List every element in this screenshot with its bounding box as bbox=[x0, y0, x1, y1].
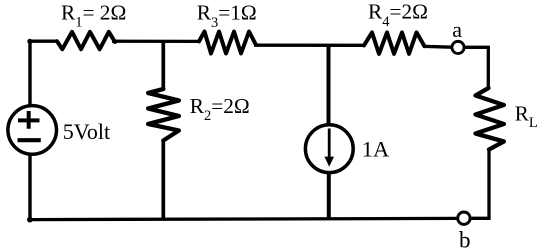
wire current source branch top bbox=[327, 45, 331, 125]
wire R3 to R4 bbox=[254, 44, 364, 47]
node b bbox=[458, 212, 470, 224]
voltage source plus bbox=[18, 111, 40, 129]
resistor R1 bbox=[57, 32, 115, 49]
wire R2 branch top bbox=[161, 41, 165, 90]
wire top-left horizontal bbox=[30, 40, 58, 43]
junction dot top-left bbox=[27, 39, 32, 44]
wire bottom bbox=[30, 218, 458, 219]
wire left vertical bottom bbox=[28, 154, 31, 220]
svg-text:R3=1Ω: R3=1Ω bbox=[197, 0, 257, 31]
wire current source branch bottom bbox=[327, 173, 331, 220]
wire RL to bottom bbox=[470, 149, 489, 219]
svg-text:b: b bbox=[459, 227, 471, 252]
resistor R4 bbox=[364, 32, 425, 54]
svg-text:R2=2Ω: R2=2Ω bbox=[190, 94, 250, 124]
node a bbox=[452, 41, 464, 53]
voltage source minus bbox=[18, 138, 41, 142]
resistor R3 bbox=[199, 32, 256, 54]
wire R1 to R2 junction bbox=[112, 40, 200, 44]
voltage source V1 circle bbox=[8, 106, 57, 155]
wire node a to right corner bbox=[464, 47, 488, 89]
wire R2 branch bottom bbox=[161, 140, 165, 220]
wire left vertical top bbox=[28, 41, 31, 106]
svg-text:1A: 1A bbox=[362, 136, 390, 161]
wire R4 to node a bbox=[423, 45, 452, 49]
svg-text:R1= 2Ω: R1= 2Ω bbox=[61, 0, 126, 30]
current source arrow bbox=[328, 129, 331, 159]
current source I1 circle bbox=[305, 125, 353, 173]
svg-text:RL: RL bbox=[515, 102, 538, 132]
svg-text:5Volt: 5Volt bbox=[63, 119, 110, 144]
resistor RL bbox=[476, 88, 504, 150]
junction dot bottom-left bbox=[27, 217, 33, 223]
svg-text:a: a bbox=[452, 17, 462, 42]
resistor R2 bbox=[148, 89, 179, 141]
svg-text:R4=2Ω: R4=2Ω bbox=[368, 0, 428, 30]
